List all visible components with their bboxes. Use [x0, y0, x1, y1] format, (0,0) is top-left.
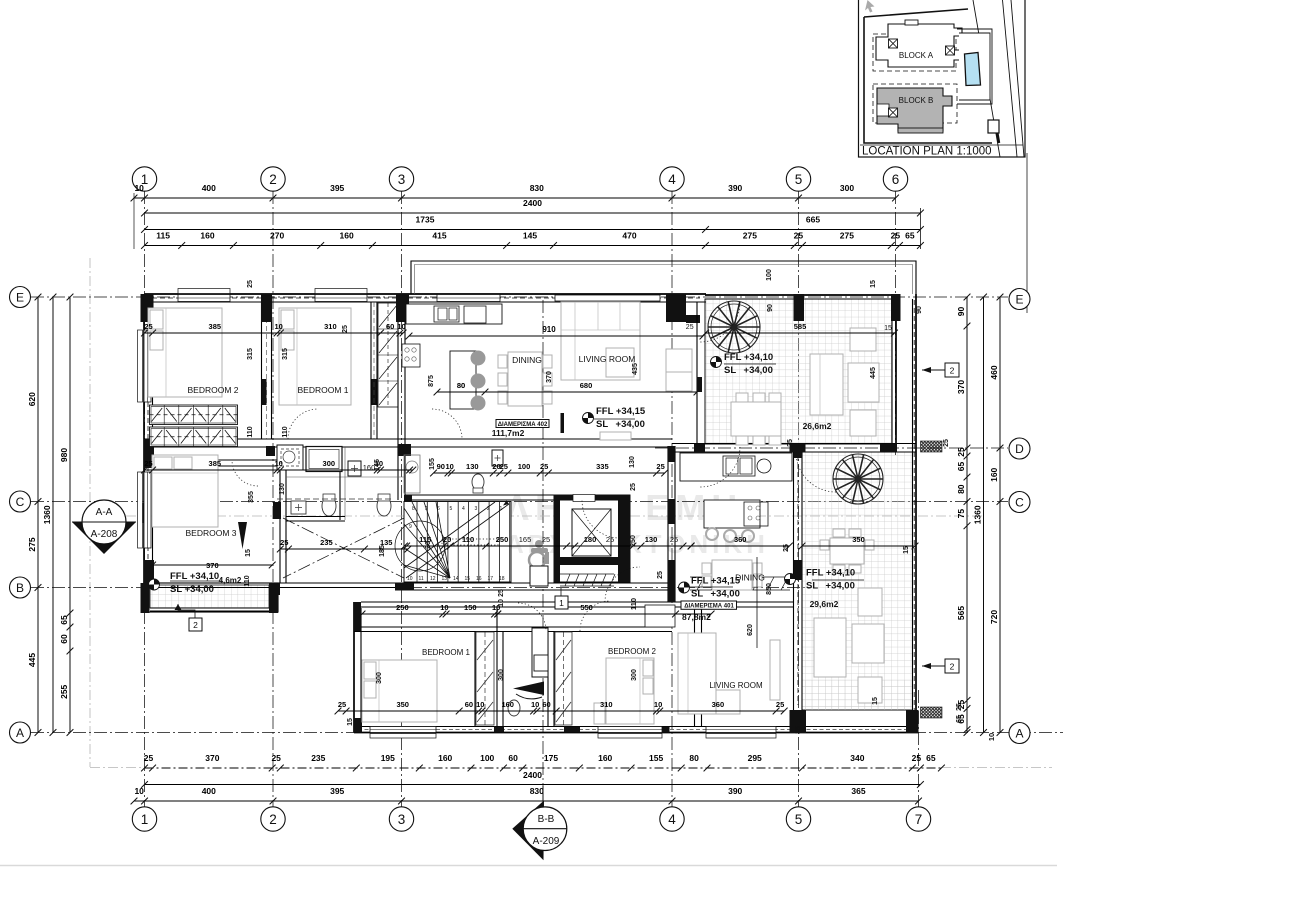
- B wall (bedroom3 bottom / balcony): [144, 582, 404, 584]
- mouse cursor: [865, 0, 875, 13]
- svg-text:2400: 2400: [523, 198, 542, 208]
- svg-text:180: 180: [584, 535, 597, 544]
- svg-text:365: 365: [851, 786, 865, 796]
- elevator cab: [572, 509, 611, 556]
- svg-text:395: 395: [330, 183, 344, 193]
- wardrobes bedroom2: [150, 405, 238, 425]
- apt divider x668: [667, 446, 669, 602]
- svg-text:10: 10: [531, 700, 539, 709]
- svg-text:10: 10: [397, 322, 405, 331]
- svg-text:5: 5: [450, 506, 453, 512]
- dining table 402: [508, 352, 542, 406]
- svg-text:15: 15: [347, 718, 354, 726]
- bed bedroom1 (401): [362, 660, 437, 722]
- svg-text:110: 110: [282, 426, 289, 437]
- svg-text:1735: 1735: [416, 215, 435, 225]
- svg-text:160: 160: [438, 753, 452, 763]
- grid lines horizontal: [31, 296, 1008, 298]
- svg-text:B-B: B-B: [538, 814, 555, 825]
- svg-text:FFL +34,15: FFL +34,15: [596, 406, 646, 417]
- svg-text:25: 25: [943, 439, 950, 447]
- svg-text:155: 155: [649, 753, 663, 763]
- svg-text:A-208: A-208: [91, 529, 118, 540]
- svg-text:C: C: [1015, 495, 1024, 509]
- interior dim row y470: [141, 459, 416, 473]
- D wall balcony bottom band: [672, 443, 916, 445]
- svg-text:15: 15: [872, 697, 879, 705]
- detail box 2 left: [189, 618, 202, 631]
- block A dashed plot: [873, 34, 956, 71]
- balcony bottom left 4,6m2 hatch: [150, 585, 269, 608]
- section jog dashes corridor: [283, 518, 404, 578]
- step numbers: [407, 506, 505, 582]
- svg-text:435: 435: [632, 363, 639, 375]
- svg-text:60: 60: [59, 634, 69, 644]
- svg-text:2: 2: [269, 172, 277, 187]
- svg-text:60: 60: [465, 700, 473, 709]
- svg-text:160: 160: [340, 231, 354, 241]
- svg-text:20: 20: [443, 535, 451, 544]
- svg-text:ΔΙΑΜΕΡΙΣΜΑ 401: ΔΙΑΜΕΡΙΣΜΑ 401: [684, 604, 734, 610]
- section marker B-B/A-209: [512, 786, 567, 860]
- bed bedroom1: [279, 308, 351, 405]
- svg-text:25: 25: [891, 231, 901, 241]
- svg-text:275: 275: [840, 231, 854, 241]
- dim row bottom detail: [141, 753, 945, 771]
- svg-text:25: 25: [542, 535, 550, 544]
- svg-text:300: 300: [631, 669, 638, 681]
- svg-text:65: 65: [956, 462, 966, 472]
- outdoor table top balcony: [731, 402, 781, 436]
- grid lines vertical: [144, 191, 146, 807]
- svg-text:10: 10: [446, 462, 454, 471]
- svg-text:720: 720: [989, 610, 999, 624]
- svg-text:90: 90: [437, 462, 445, 471]
- watermark: [505, 487, 769, 559]
- dim row 585/balcony top: [702, 322, 898, 336]
- svg-text:90: 90: [916, 306, 923, 314]
- detail box 1: [555, 596, 568, 609]
- svg-text:8: 8: [412, 506, 415, 512]
- svg-text:315: 315: [282, 348, 289, 360]
- svg-text:10: 10: [407, 576, 413, 582]
- svg-text:130: 130: [645, 535, 658, 544]
- dim 80/680 row: [434, 381, 701, 395]
- svg-text:400: 400: [202, 786, 216, 796]
- block A building: [876, 24, 963, 67]
- right dim col outer: [989, 294, 1003, 736]
- svg-text:110: 110: [244, 575, 251, 586]
- landing railing: [560, 574, 615, 586]
- svg-text:5: 5: [795, 172, 803, 187]
- svg-text:620: 620: [27, 392, 37, 406]
- svg-text:A: A: [16, 726, 24, 740]
- site boundary: [89, 258, 91, 767]
- svg-text:25: 25: [540, 462, 548, 471]
- wc 402 toilet: [472, 474, 484, 490]
- svg-text:185: 185: [379, 545, 386, 557]
- svg-text:115: 115: [156, 231, 170, 241]
- spiral stair top balcony: [708, 301, 760, 353]
- svg-text:BLOCK B: BLOCK B: [899, 96, 934, 105]
- svg-text:80: 80: [689, 753, 699, 763]
- svg-text:10: 10: [275, 459, 283, 468]
- sliding door living 402: [555, 295, 660, 301]
- svg-text:145: 145: [374, 459, 381, 471]
- window sills outside E wall: [178, 289, 230, 294]
- crosshatched columns right edge: [921, 441, 943, 452]
- wc 402 sink: [492, 450, 503, 466]
- svg-text:10: 10: [498, 599, 505, 607]
- svg-text:15: 15: [465, 576, 471, 582]
- svg-text:370: 370: [206, 561, 219, 570]
- svg-text:4,6m2: 4,6m2: [219, 576, 242, 585]
- dim row top grid spans: [131, 183, 899, 201]
- svg-text:90: 90: [767, 304, 774, 312]
- svg-text:FFL +34,10: FFL +34,10: [806, 568, 855, 579]
- svg-text:340: 340: [850, 753, 864, 763]
- svg-text:370: 370: [546, 371, 553, 383]
- bedroom3 left walls: [144, 459, 280, 461]
- dim line 850/620: [756, 557, 758, 648]
- svg-text:BEDROOM 3: BEDROOM 3: [185, 528, 236, 538]
- bath walls middle-left: [286, 476, 404, 478]
- svg-text:100: 100: [518, 462, 531, 471]
- section line A-A horizontal: [126, 515, 985, 517]
- svg-text:90: 90: [956, 307, 966, 317]
- right dim col inner: [956, 294, 970, 736]
- svg-text:25: 25: [656, 462, 664, 471]
- svg-text:60: 60: [386, 322, 394, 331]
- svg-text:4: 4: [668, 172, 676, 187]
- windows bottom wall A: [370, 727, 436, 733]
- left dim col 1360: [42, 294, 56, 736]
- outdoor sofa set top balcony: [810, 354, 843, 415]
- svg-text:255: 255: [59, 684, 69, 698]
- grid bubbles top: [132, 167, 156, 191]
- svg-text:25: 25: [657, 571, 664, 579]
- svg-text:25: 25: [342, 325, 349, 333]
- left dim col inner: [59, 294, 73, 736]
- svg-text:100: 100: [766, 269, 773, 281]
- apt401 corridor bottom wall: [361, 601, 794, 603]
- svg-text:250: 250: [396, 603, 409, 612]
- svg-text:65: 65: [956, 715, 963, 723]
- svg-text:10: 10: [440, 603, 448, 612]
- svg-text:SL +34,00: SL +34,00: [806, 581, 855, 592]
- svg-text:B: B: [16, 581, 24, 595]
- interior dim row y546: [277, 538, 412, 552]
- svg-text:25: 25: [956, 703, 963, 711]
- svg-text:80: 80: [956, 484, 966, 494]
- svg-text:6: 6: [437, 506, 440, 512]
- left exterior wall: [143, 294, 145, 588]
- svg-text:150: 150: [464, 603, 477, 612]
- window sills left of left wall: [138, 330, 143, 402]
- kitchen tall cabinets: [378, 303, 398, 407]
- svg-text:BLOCK A: BLOCK A: [899, 51, 934, 60]
- wall bedroom1/kitchen: [370, 302, 372, 439]
- svg-text:25: 25: [912, 753, 922, 763]
- svg-text:300: 300: [840, 183, 854, 193]
- svg-text:25: 25: [280, 538, 288, 547]
- svg-text:25: 25: [247, 280, 254, 288]
- svg-text:550: 550: [580, 603, 593, 612]
- svg-text:160: 160: [501, 700, 514, 709]
- svg-text:FFL +34,10: FFL +34,10: [170, 571, 219, 582]
- dining table 401: [712, 560, 752, 590]
- svg-text:LIVING ROOM: LIVING ROOM: [579, 354, 636, 364]
- svg-text:175: 175: [544, 753, 558, 763]
- svg-text:300: 300: [498, 669, 505, 681]
- bed bedroom3: [152, 455, 218, 527]
- svg-text:235: 235: [311, 753, 325, 763]
- spiral stair right balcony: [833, 454, 883, 504]
- section marker A-A/A-208: [72, 500, 136, 554]
- svg-text:100: 100: [480, 753, 494, 763]
- svg-text:20: 20: [425, 541, 432, 549]
- wc fixtures: [322, 496, 336, 516]
- svg-text:10: 10: [987, 733, 996, 741]
- svg-text:7: 7: [425, 506, 428, 512]
- svg-text:300: 300: [376, 672, 383, 684]
- svg-text:275: 275: [743, 231, 757, 241]
- svg-text:A-A: A-A: [96, 507, 113, 518]
- svg-text:25: 25: [686, 324, 694, 331]
- door arcs: [288, 409, 318, 439]
- svg-text:29,6m2: 29,6m2: [810, 599, 839, 609]
- site boundary: [864, 9, 992, 143]
- svg-text:25: 25: [606, 535, 614, 544]
- island 402: [450, 351, 476, 409]
- door jambs (black): [262, 379, 267, 405]
- structural columns (black): [141, 294, 154, 322]
- svg-text:875: 875: [428, 375, 435, 387]
- windows left wall: [144, 330, 151, 402]
- road lines: [973, 0, 1024, 157]
- svg-text:25: 25: [956, 447, 966, 457]
- svg-text:400: 400: [202, 183, 216, 193]
- stair handrail dotted: [442, 539, 498, 545]
- svg-text:1: 1: [500, 506, 503, 512]
- core bottom wall: [398, 582, 672, 584]
- stair direction lines: [406, 504, 509, 578]
- svg-text:FFL +34,15: FFL +34,15: [691, 576, 741, 587]
- dim row top detail: [141, 231, 924, 249]
- black wedge bath: [513, 682, 544, 696]
- svg-text:10: 10: [654, 700, 662, 709]
- svg-text:470: 470: [622, 231, 636, 241]
- stair x-box block A: [889, 39, 898, 48]
- light well railing right: [690, 577, 790, 590]
- svg-text:295: 295: [748, 753, 762, 763]
- armchair 402: [666, 349, 692, 372]
- svg-text:370: 370: [205, 753, 219, 763]
- svg-text:145: 145: [523, 231, 537, 241]
- outdoor sofa right balcony: [814, 618, 846, 677]
- svg-text:160: 160: [989, 467, 999, 481]
- svg-text:C: C: [16, 495, 25, 509]
- dim 370 row bedroom3: [149, 561, 275, 570]
- canopy outline: [411, 261, 916, 294]
- A wall (bottom): [354, 726, 919, 728]
- wall grid3 vertical: [397, 302, 399, 500]
- svg-text:12: 12: [430, 576, 436, 582]
- wheelchair symbol: [529, 540, 549, 568]
- svg-text:665: 665: [806, 215, 820, 225]
- svg-text:350: 350: [396, 700, 409, 709]
- svg-text:BEDROOM 1: BEDROOM 1: [297, 385, 348, 395]
- kitchen 401 counter: [680, 453, 792, 481]
- svg-text:25: 25: [498, 589, 505, 597]
- apt401 interior walls: [474, 631, 476, 726]
- svg-text:310: 310: [324, 322, 337, 331]
- svg-text:4: 4: [668, 812, 676, 827]
- svg-text:BEDROOM 2: BEDROOM 2: [187, 385, 238, 395]
- svg-text:385: 385: [209, 322, 222, 331]
- dim row 2400 top: [141, 198, 924, 216]
- svg-text:1360: 1360: [973, 505, 983, 524]
- interior dim row y333: [141, 322, 406, 336]
- svg-text:360: 360: [712, 700, 725, 709]
- svg-text:5: 5: [795, 812, 803, 827]
- svg-text:LOCATION PLAN 1:1000: LOCATION PLAN 1:1000: [862, 146, 992, 158]
- winder fan: [404, 502, 450, 578]
- balcony top right 26,6m2 hatch: [705, 299, 892, 444]
- svg-text:395: 395: [330, 786, 344, 796]
- svg-text:3: 3: [475, 506, 478, 512]
- svg-text:SL +34,00: SL +34,00: [691, 589, 740, 600]
- svg-text:25: 25: [795, 726, 802, 734]
- svg-text:65: 65: [926, 753, 936, 763]
- wall bedroom2/bedroom1: [261, 302, 263, 439]
- dim row 1735/665: [141, 215, 924, 233]
- svg-text:355: 355: [248, 491, 255, 503]
- svg-text:2: 2: [950, 366, 955, 376]
- balcony left wall: [696, 302, 698, 443]
- wall insulation dashes: [147, 306, 149, 580]
- small hut: [988, 120, 999, 133]
- balcony 4,6m2 outline: [144, 583, 278, 612]
- svg-text:26,6m2: 26,6m2: [803, 421, 832, 431]
- block B building (gray): [877, 88, 952, 131]
- shower 401: [532, 628, 548, 677]
- svg-text:370: 370: [956, 380, 966, 394]
- grid bubbles left: [10, 287, 31, 308]
- svg-text:15: 15: [903, 546, 910, 554]
- svg-text:A-209: A-209: [533, 836, 560, 847]
- svg-text:110: 110: [629, 598, 638, 610]
- svg-text:18: 18: [499, 576, 505, 582]
- svg-text:565: 565: [956, 606, 966, 620]
- svg-text:DINING: DINING: [512, 355, 542, 365]
- interior dim row balcony y546: [799, 535, 919, 549]
- apt401 bedroom top wall: [354, 626, 672, 628]
- svg-text:270: 270: [270, 231, 284, 241]
- svg-text:17: 17: [488, 576, 494, 582]
- svg-text:2400: 2400: [523, 770, 542, 780]
- svg-text:7: 7: [915, 812, 923, 827]
- core top wall: [405, 494, 560, 496]
- svg-text:315: 315: [247, 348, 254, 360]
- svg-text:1: 1: [559, 598, 564, 608]
- svg-text:390: 390: [728, 786, 742, 796]
- svg-text:3: 3: [398, 172, 406, 187]
- svg-text:385: 385: [209, 459, 222, 468]
- svg-text:14: 14: [453, 576, 459, 582]
- svg-text:680: 680: [580, 381, 593, 390]
- grid bubbles bottom: [132, 807, 156, 831]
- apartment tags: [496, 420, 549, 428]
- svg-text:75: 75: [956, 509, 966, 519]
- svg-text:2: 2: [269, 812, 277, 827]
- svg-text:300: 300: [323, 459, 336, 468]
- svg-text:111,7m2: 111,7m2: [492, 428, 525, 438]
- svg-text:15: 15: [245, 549, 252, 557]
- block B dashed plot: [873, 84, 957, 123]
- svg-text:9: 9: [409, 524, 412, 530]
- door jamb living 402: [561, 413, 565, 433]
- bed bedroom2 (401): [606, 658, 654, 724]
- cabinet 401 hall: [645, 605, 675, 627]
- outdoor table right balcony: [830, 538, 864, 564]
- svg-text:D: D: [1015, 442, 1024, 456]
- svg-text:350: 350: [852, 535, 865, 544]
- svg-text:110: 110: [247, 426, 254, 437]
- svg-text:25: 25: [338, 700, 346, 709]
- svg-text:15: 15: [884, 325, 892, 332]
- right dim col 1360: [973, 294, 987, 736]
- svg-text:10: 10: [476, 700, 484, 709]
- svg-text:A: A: [1015, 726, 1023, 740]
- balcony right 29,6m2 hatch: [802, 452, 913, 710]
- svg-text:360: 360: [734, 535, 747, 544]
- pool deck: [959, 33, 990, 100]
- dim 910 row: [406, 325, 707, 339]
- right apartment/balcony wall: [793, 448, 795, 733]
- svg-text:155: 155: [429, 458, 436, 470]
- svg-text:16: 16: [476, 576, 482, 582]
- svg-text:25: 25: [670, 535, 678, 544]
- svg-text:130: 130: [279, 483, 286, 495]
- elevator shaft: [554, 495, 630, 582]
- svg-text:980: 980: [59, 448, 69, 462]
- svg-text:25: 25: [144, 459, 152, 468]
- svg-text:BEDROOM 2: BEDROOM 2: [608, 647, 657, 656]
- svg-text:445: 445: [870, 367, 877, 379]
- svg-text:165: 165: [519, 535, 532, 544]
- svg-text:FFL +34,10: FFL +34,10: [724, 352, 773, 363]
- svg-text:LIVING ROOM: LIVING ROOM: [709, 681, 763, 690]
- svg-text:15: 15: [870, 280, 877, 288]
- svg-text:910: 910: [542, 325, 556, 334]
- location plan inset: [859, 0, 1026, 158]
- svg-text:310: 310: [600, 700, 613, 709]
- svg-text:275: 275: [27, 537, 37, 551]
- svg-text:25: 25: [271, 753, 281, 763]
- kitchen 402 counter: [406, 304, 502, 324]
- svg-text:6: 6: [892, 172, 900, 187]
- svg-text:13: 13: [442, 576, 448, 582]
- detail box 2 right: [945, 659, 959, 673]
- svg-text:80: 80: [457, 381, 465, 390]
- dim row 2400 bottom: [141, 770, 924, 788]
- interior dim row y711: [335, 700, 788, 714]
- svg-text:830: 830: [530, 183, 544, 193]
- svg-text:250: 250: [630, 535, 637, 547]
- interior dim row y617 (corridor 401): [359, 603, 502, 617]
- svg-text:1: 1: [141, 812, 149, 827]
